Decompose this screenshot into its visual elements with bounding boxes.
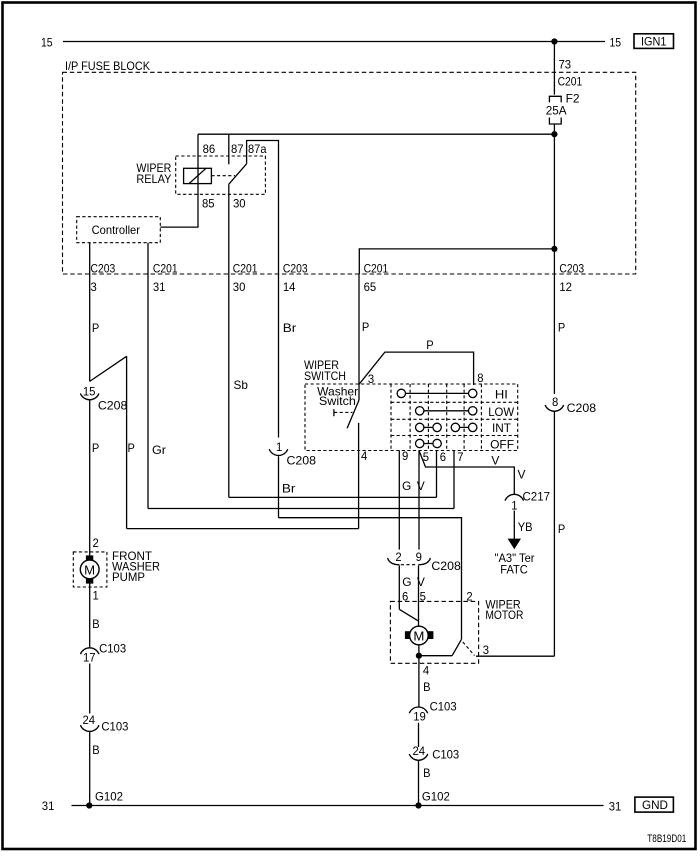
relay pin 87 stub [228, 134, 230, 164]
wire switch pin 5 branch to C217 (V) [419, 451, 514, 495]
svg-text:B: B [92, 743, 99, 757]
svg-text:31: 31 [42, 799, 55, 813]
switch LOW contacts [416, 407, 477, 415]
wire switch pin 6 down [436, 451, 438, 498]
svg-text:GND: GND [642, 798, 668, 812]
svg-text:3: 3 [483, 643, 490, 657]
svg-text:V: V [518, 468, 526, 482]
junction motor bottom [416, 653, 422, 659]
wiper motor M [405, 626, 434, 645]
svg-text:C103: C103 [99, 642, 126, 656]
junction ground right [415, 802, 421, 808]
washer switch blade [347, 400, 359, 428]
wiper switch S1 dashed box [305, 384, 518, 451]
connector C203 pin 12 labels [559, 262, 584, 295]
svg-text:P: P [128, 441, 135, 455]
connector C208 pin 1 (on Br wire) [269, 440, 316, 468]
relay mechanical link dashes [211, 175, 235, 177]
svg-text:M: M [413, 628, 424, 643]
svg-text:C201: C201 [233, 262, 258, 276]
wire pump to C103-17 [89, 583, 91, 647]
wire switch pin 9 down to C208-2 [398, 451, 400, 550]
connector C103 pin 24 [80, 713, 128, 734]
svg-text:12: 12 [559, 280, 572, 294]
svg-text:B: B [92, 617, 99, 631]
fuse F2 25A [546, 92, 580, 124]
wire motor pin 3 to right rail [476, 655, 554, 657]
connector C103 pin 19 [409, 699, 457, 723]
ground rail 31 [72, 805, 604, 807]
relay label WIPER RELAY [136, 161, 171, 186]
svg-text:C208: C208 [287, 454, 317, 468]
wire diagonal split at C208-15 [90, 356, 127, 381]
svg-text:P: P [362, 320, 369, 334]
wire C103-19 to C103-24 [418, 723, 420, 747]
svg-text:C208: C208 [98, 399, 128, 413]
svg-text:C217: C217 [523, 489, 551, 503]
svg-text:LOW: LOW [488, 405, 515, 419]
svg-text:C103: C103 [430, 699, 457, 713]
svg-text:6: 6 [440, 450, 447, 464]
switch INT contacts [416, 423, 477, 431]
node IGN1 box [634, 34, 674, 49]
svg-text:2: 2 [93, 536, 100, 550]
washer switch label [317, 384, 358, 408]
svg-text:C203: C203 [91, 262, 116, 276]
svg-text:G: G [402, 575, 411, 589]
svg-text:MOTOR: MOTOR [485, 608, 523, 622]
front washer pump M [73, 552, 107, 587]
wire switch pin 4 [358, 423, 360, 529]
svg-text:B: B [423, 766, 430, 780]
wiper switch label [304, 358, 346, 383]
wire switch pin 7 down [453, 451, 455, 509]
front washer pump label [112, 549, 160, 584]
switch grid dashed columns [391, 384, 481, 451]
wire relay pin 85 to controller [160, 184, 198, 228]
svg-text:31: 31 [153, 280, 166, 294]
svg-text:9: 9 [402, 449, 409, 463]
svg-text:P: P [558, 320, 565, 334]
svg-text:T8B19D01: T8B19D01 [647, 833, 686, 845]
relay dashed box [176, 156, 266, 194]
wire right rail below C208-8 [553, 411, 555, 656]
wire bus Gr: C201-31 to switch pin7 [148, 508, 454, 510]
svg-text:C203: C203 [559, 262, 584, 276]
svg-text:C208: C208 [567, 401, 597, 415]
svg-text:15: 15 [41, 36, 53, 50]
svg-text:7: 7 [457, 450, 464, 464]
svg-text:C201: C201 [153, 262, 178, 276]
svg-text:V: V [491, 453, 499, 467]
svg-text:G102: G102 [422, 790, 450, 804]
I/P fuse block dashed box [63, 72, 636, 274]
svg-text:2: 2 [395, 550, 402, 564]
svg-text:OFF: OFF [490, 438, 514, 452]
wire controller pin to C203-3 [89, 243, 91, 382]
svg-text:8: 8 [552, 395, 559, 409]
svg-text:P: P [426, 338, 433, 352]
svg-text:31: 31 [609, 800, 622, 814]
svg-text:1: 1 [93, 589, 100, 603]
svg-text:15: 15 [610, 36, 622, 50]
wire C208-2 to motor pin6 (G) [398, 565, 400, 609]
svg-text:P: P [92, 321, 99, 335]
connector C208 pin 15 [80, 385, 127, 413]
svg-text:Sb: Sb [234, 378, 249, 392]
svg-text:B: B [423, 680, 430, 694]
svg-text:C208: C208 [431, 559, 461, 573]
svg-text:IGN1: IGN1 [641, 34, 667, 48]
connector C203 pin 14 labels [283, 262, 308, 295]
connector C208 bracket dashes and label [401, 559, 461, 573]
svg-text:C103: C103 [432, 748, 459, 762]
svg-text:M: M [84, 562, 95, 577]
svg-text:RELAY: RELAY [136, 172, 171, 186]
connector C208 pin 2 [388, 550, 402, 565]
switch grid dashed rows [391, 402, 518, 435]
wire branch to C201-65 [359, 249, 554, 274]
svg-text:P: P [92, 441, 99, 455]
wire motor to pin 4 [418, 644, 420, 707]
svg-text:P: P [558, 522, 565, 536]
wire C201-65 P feed down to switch pin 3 [358, 274, 360, 400]
svg-text:C201: C201 [364, 262, 389, 276]
connector C203 pin 3 labels [91, 262, 116, 295]
svg-text:Switch: Switch [319, 394, 356, 408]
svg-text:87: 87 [231, 142, 244, 156]
svg-text:73: 73 [559, 58, 572, 72]
svg-text:3: 3 [91, 280, 98, 294]
svg-text:V: V [417, 479, 425, 493]
svg-text:G: G [402, 479, 411, 493]
svg-text:I/P FUSE BLOCK: I/P FUSE BLOCK [65, 59, 150, 73]
node "A3" Ter FATC label [495, 551, 535, 577]
junction on IGN1 rail [551, 38, 557, 44]
wire controller pin to C201-31 [147, 243, 149, 509]
svg-text:25A: 25A [546, 103, 567, 117]
wire C208-15 to washer pump [89, 400, 91, 556]
svg-text:30: 30 [233, 197, 246, 211]
park switch common line [419, 655, 452, 657]
svg-text:65: 65 [364, 280, 377, 294]
connector C103 pin 24 (motor branch) [409, 744, 459, 762]
wire fuse output down [553, 124, 555, 249]
svg-text:85: 85 [202, 197, 215, 211]
connector C103 pin 17 [80, 642, 126, 665]
wire C208-9 to motor pin5 (V) [418, 565, 420, 626]
svg-text:87a: 87a [248, 142, 267, 156]
wire relay pin 86 drop [197, 134, 199, 168]
wire bus Sb: relay30 to switch pin6 [229, 496, 437, 498]
svg-text:8: 8 [477, 371, 484, 385]
svg-text:30: 30 [233, 280, 246, 294]
park switch alternate position (dashed) [463, 642, 475, 656]
svg-text:HI: HI [495, 387, 508, 401]
svg-text:V: V [417, 575, 425, 589]
wire Br below C208-1 [278, 456, 280, 517]
junction fuse output to C203-12 branch [551, 246, 557, 252]
svg-text:14: 14 [283, 280, 296, 294]
node GND box [635, 797, 674, 812]
wire C103-17 to C103-24 [89, 664, 91, 714]
svg-text:C103: C103 [101, 720, 128, 734]
svg-text:9: 9 [416, 550, 423, 564]
svg-text:1: 1 [511, 499, 518, 513]
relay contact arm 30 to 87a [229, 164, 247, 184]
svg-text:24: 24 [413, 744, 426, 758]
switch OFF contacts [416, 439, 442, 447]
wire C217 to FATC arrow (YB) [513, 511, 515, 540]
connector C208 pin 9 [416, 550, 431, 565]
wire motor pin6 internal diagonal [399, 609, 418, 620]
wire from IGN1 rail down to fuse F2 [553, 42, 555, 95]
wire relay pin 30 down [228, 184, 230, 497]
wire P branch down from split [126, 356, 128, 528]
switch HI contacts [397, 389, 477, 397]
svg-text:Br: Br [283, 321, 297, 335]
svg-text:INT: INT [492, 421, 512, 435]
svg-text:G102: G102 [95, 789, 123, 803]
svg-text:F2: F2 [566, 92, 580, 106]
controller U1 [77, 217, 161, 243]
svg-text:86: 86 [203, 142, 216, 156]
wire relay feed horizontal [198, 133, 554, 135]
washer switch actuator tick [334, 409, 353, 416]
wire relay pin 87a up and over [247, 141, 279, 438]
relay coil [184, 168, 212, 183]
svg-text:4: 4 [361, 449, 368, 463]
svg-text:C201: C201 [558, 75, 583, 89]
svg-text:Controller: Controller [92, 223, 140, 237]
svg-text:4: 4 [423, 663, 430, 677]
arrow to FATC [508, 539, 521, 550]
svg-text:SWITCH: SWITCH [304, 369, 346, 383]
svg-text:19: 19 [413, 710, 426, 724]
connector C201 pin 31 labels [153, 262, 178, 295]
svg-text:PUMP: PUMP [112, 570, 145, 584]
svg-text:C203: C203 [283, 262, 308, 276]
svg-text:24: 24 [83, 713, 96, 727]
connector C201 pin 65 labels [364, 262, 389, 295]
wiper motor label [485, 598, 523, 622]
park switch arm (closed to pin 2) [452, 639, 461, 655]
svg-text:17: 17 [83, 651, 96, 665]
junction fuse output to relay feed [551, 131, 557, 137]
junction ground left [86, 802, 92, 808]
svg-text:Gr: Gr [152, 443, 166, 457]
wire bus Br: to wiper motor pin2 [279, 518, 462, 640]
connector C217 pin 1 [505, 489, 550, 512]
wire bus P: split to switch pin4 [127, 528, 359, 530]
wire branch pin3 to pin8 (P) [359, 352, 474, 385]
connector C201 pin 30 labels [233, 262, 258, 295]
svg-text:FATC: FATC [500, 563, 528, 577]
wire right rail P: C203-12 down [553, 249, 555, 394]
wire C103-24 to ground G102 [89, 731, 91, 805]
svg-text:15: 15 [83, 385, 96, 399]
wiper motor dashed box [390, 601, 478, 663]
wire C103-24 to ground (motor branch) [418, 760, 420, 805]
wire switch pin 5 down to C208-9 [418, 451, 420, 550]
wire IGN1 rail [63, 41, 605, 43]
svg-text:YB: YB [518, 520, 533, 534]
svg-text:1: 1 [276, 440, 283, 454]
svg-text:Br: Br [282, 482, 296, 496]
connector C208 pin 8 [545, 395, 596, 415]
